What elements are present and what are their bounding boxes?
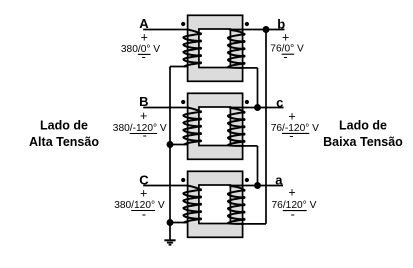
svg-text:-: - <box>143 128 147 142</box>
svg-text:380/0° V: 380/0° V <box>121 44 160 55</box>
wire phase a output <box>229 185 283 187</box>
transformer T1 secondary winding <box>228 30 246 68</box>
polarity dot T1 primary <box>181 22 185 26</box>
wire T2 primary bottom exit <box>170 144 189 146</box>
svg-text:-: - <box>289 129 293 143</box>
junction node b <box>263 26 270 33</box>
svg-text:b: b <box>277 17 285 32</box>
junction neutral T3 <box>167 219 174 226</box>
svg-text:-: - <box>291 208 295 222</box>
transformer T3 primary winding <box>183 186 202 223</box>
svg-text:380/120° V: 380/120° V <box>114 200 165 211</box>
svg-text:c: c <box>276 95 283 110</box>
junction node c <box>254 104 261 111</box>
svg-text:380/-120° V: 380/-120° V <box>113 123 167 134</box>
transformer T3 secondary winding <box>228 186 246 224</box>
wire primary neutral vertical <box>169 67 171 240</box>
wire T3 primary bottom exit <box>170 222 189 224</box>
wire phase b output <box>229 29 285 31</box>
phase c angle underline <box>282 132 309 134</box>
svg-text:B: B <box>139 94 148 109</box>
transformer T2 primary winding <box>183 108 202 145</box>
wire T1 secondary bottom exit <box>243 67 258 69</box>
polarity dot T3 secondary <box>245 178 249 182</box>
transformer T1 core <box>188 15 243 81</box>
junction node a <box>254 182 261 189</box>
svg-text:-: - <box>283 50 287 64</box>
svg-text:Baixa Tensão: Baixa Tensão <box>323 135 403 149</box>
svg-text:+: + <box>140 109 147 123</box>
phase A angle underline <box>138 53 151 55</box>
transformer T2 core <box>188 93 243 159</box>
wire phase B input <box>143 107 188 109</box>
polarity dot T2 primary <box>181 100 185 104</box>
wire T1 primary bottom exit <box>170 66 189 68</box>
svg-text:Alta Tensão: Alta Tensão <box>29 135 99 149</box>
svg-text:+: + <box>288 110 295 124</box>
phase C angle underline <box>131 210 155 212</box>
svg-text:C: C <box>139 173 149 188</box>
svg-text:+: + <box>141 31 148 45</box>
transformer T1 primary winding <box>183 30 202 67</box>
phase B angle underline <box>130 133 157 135</box>
svg-text:Lado de: Lado de <box>339 118 387 132</box>
wire phase C input <box>143 185 188 187</box>
svg-text:-: - <box>142 208 146 222</box>
svg-text:Lado de: Lado de <box>40 118 88 132</box>
svg-text:a: a <box>275 172 283 187</box>
wire T2 secondary bottom exit <box>243 145 258 147</box>
svg-text:76/-120° V: 76/-120° V <box>271 123 319 134</box>
transformer T3 core <box>188 171 243 237</box>
svg-text:A: A <box>139 16 149 31</box>
wire T1 secondary drop to node c <box>257 68 259 108</box>
svg-text:+: + <box>140 187 147 201</box>
svg-text:+: + <box>282 31 289 45</box>
wire node b vertical to T3 secondary bottom <box>265 30 267 224</box>
wire phase A input <box>143 29 188 31</box>
high voltage side caption <box>29 118 99 149</box>
low voltage side caption <box>323 118 403 149</box>
wire phase c output <box>229 107 284 109</box>
wire T3 secondary bottom exit <box>243 223 266 225</box>
wire T2 secondary drop to node a <box>257 146 259 186</box>
polarity dot T1 secondary <box>245 22 249 26</box>
phase b angle underline <box>282 53 295 55</box>
polarity dot T2 secondary <box>245 100 249 104</box>
polarity dot T3 primary <box>181 178 185 182</box>
junction neutral T2 <box>167 141 174 148</box>
ground <box>164 240 175 244</box>
svg-text:+: + <box>288 185 295 199</box>
phase a angle underline <box>283 210 307 212</box>
svg-text:-: - <box>142 50 146 64</box>
transformer T2 secondary winding <box>228 108 246 146</box>
